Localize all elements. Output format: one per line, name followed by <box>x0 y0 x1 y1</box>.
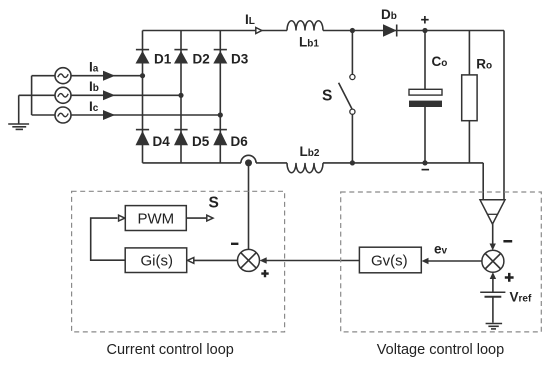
label - current summer <box>231 243 238 245</box>
diode Db <box>383 24 397 36</box>
arrow into Gi right <box>188 258 194 264</box>
battery Vref <box>480 279 505 323</box>
svg-text:S: S <box>209 195 219 212</box>
summing junction voltage <box>482 250 504 272</box>
svg-text:Voltage control loop: Voltage control loop <box>377 342 504 358</box>
label + voltage summer <box>505 273 514 282</box>
node current sense <box>245 159 252 166</box>
inductor Lb2 <box>287 163 323 173</box>
wire top rail <box>143 30 505 32</box>
voltage sensor triangle U1 <box>480 200 505 224</box>
svg-text:Ib: Ib <box>89 79 99 94</box>
node phase c <box>218 112 223 117</box>
arrow IL (open) <box>256 28 262 34</box>
current sensor hump <box>241 155 256 163</box>
block Gi(s) <box>125 248 187 273</box>
wire bridge leg 1 <box>142 31 144 163</box>
wire sense to current summer <box>248 163 250 250</box>
arrow PWM out (open) <box>207 215 213 221</box>
svg-text:IL: IL <box>245 12 255 27</box>
dashed box voltage control loop <box>341 192 542 332</box>
wire phase b <box>71 94 182 96</box>
svg-text:D1: D1 <box>154 52 172 67</box>
wire right edge <box>503 31 505 200</box>
capacitor Co <box>409 31 442 163</box>
svg-text:Db: Db <box>381 7 397 22</box>
svg-text:Gi(s): Gi(s) <box>141 253 174 270</box>
summing junction current <box>238 249 260 271</box>
wire bridge leg 2 <box>180 31 182 163</box>
wire current summer to Gi <box>194 259 238 261</box>
wire sensor to summer <box>492 224 494 245</box>
wire phase c <box>71 114 221 116</box>
arrow into voltage summer top <box>490 244 496 251</box>
dashed box current control loop <box>72 191 285 332</box>
switch S <box>339 31 355 163</box>
svg-text:D4: D4 <box>153 134 171 149</box>
block Gv(s) <box>359 247 421 273</box>
diode D5 <box>174 130 188 146</box>
svg-text:Lb2: Lb2 <box>300 144 320 159</box>
wire phase a <box>71 75 143 77</box>
diode D2 <box>174 50 188 64</box>
node cap bottom <box>422 160 427 165</box>
node switch bottom <box>350 160 355 165</box>
svg-text:D2: D2 <box>193 52 210 67</box>
wire (neutral bus of sources) <box>19 76 56 115</box>
svg-text:+: + <box>421 12 430 29</box>
svg-text:PWM: PWM <box>138 211 175 228</box>
arrow Ic <box>104 111 113 119</box>
label - voltage summer <box>503 240 512 243</box>
arrow Ib <box>104 92 113 100</box>
svg-text:D3: D3 <box>231 52 249 67</box>
arrow into voltage summer bottom <box>490 272 496 279</box>
diode D4 <box>136 130 150 146</box>
AC source Va <box>55 68 71 84</box>
wire Gv to current summer <box>266 260 359 262</box>
wire bottom rail <box>143 163 484 200</box>
node cap top <box>422 28 427 33</box>
diode D3 <box>213 50 227 64</box>
svg-text:Ic: Ic <box>89 99 99 114</box>
svg-text:Lb1: Lb1 <box>299 35 319 50</box>
svg-text:D6: D6 <box>231 134 249 149</box>
svg-text:Vref: Vref <box>510 290 532 305</box>
ground (source neutral) <box>8 95 29 129</box>
node phase b <box>178 93 183 98</box>
diode D1 <box>136 50 150 64</box>
block PWM <box>125 206 186 231</box>
inductor Lb1 <box>287 21 323 31</box>
diode D6 <box>213 130 227 146</box>
arrow into Gv right <box>422 258 429 264</box>
svg-text:D5: D5 <box>192 134 210 149</box>
svg-text:Co: Co <box>432 54 448 69</box>
wire summer to Gv <box>428 260 482 262</box>
node switch top <box>350 28 355 33</box>
wire bridge leg 3 <box>219 31 221 163</box>
wire PWM output S <box>186 217 206 219</box>
AC source Vb <box>55 87 71 103</box>
label + current summer <box>261 270 268 277</box>
wire Gi feedback to PWM <box>91 218 126 260</box>
svg-text:Current control loop: Current control loop <box>107 342 234 358</box>
AC source Vc <box>55 107 71 123</box>
arrow into PWM left (open) <box>119 215 125 221</box>
ground (Vref) <box>486 324 503 329</box>
svg-text:−: − <box>421 162 430 179</box>
arrow into current summer right <box>260 257 267 263</box>
svg-text:Ia: Ia <box>89 60 99 75</box>
node phase a <box>140 73 145 78</box>
svg-text:S: S <box>322 88 332 105</box>
arrow Ia <box>104 72 113 80</box>
svg-text:Ro: Ro <box>476 57 492 72</box>
resistor Ro <box>462 31 477 163</box>
svg-text:Gv(s): Gv(s) <box>371 253 408 270</box>
svg-text:ev: ev <box>434 242 448 257</box>
